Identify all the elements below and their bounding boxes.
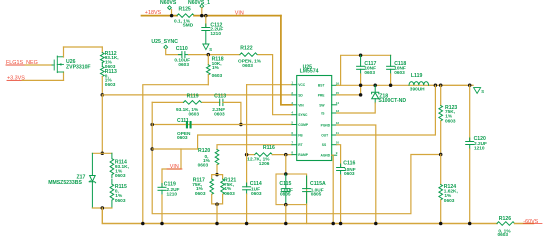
svg-text:0603: 0603 [224,191,235,197]
zener Z18 S100CT-ND [373,84,377,88]
svg-text:0603: 0603 [214,112,225,118]
svg-text:1%: 1% [115,193,123,199]
node divider top [215,173,219,177]
svg-text:1210: 1210 [210,31,221,37]
capacitor C110 [179,52,189,58]
wire BST riser [337,55,391,85]
node C116 bus [339,222,343,226]
svg-text:C110: C110 [176,46,188,52]
wire PGND drop [337,125,376,224]
capacitor C120 [469,85,471,141]
svg-text:PRE: PRE [318,93,326,97]
wire RT line [217,145,292,150]
wire C120 to bus [469,149,471,224]
wire R124 to bus [440,200,442,224]
node C114 bus [245,222,249,226]
svg-text:0603: 0603 [178,62,189,68]
wire R120 to divider [216,165,218,175]
wire VCC pin segment [247,84,292,86]
svg-text:1%: 1% [445,114,453,120]
wire R123 to mid node [440,121,442,155]
wire SS to C116 [337,145,341,167]
capacitor C115 [282,174,290,205]
resistor R120 [215,150,219,165]
node C119 bus [160,222,164,226]
svg-text:1210: 1210 [474,145,485,151]
wire RAMP rail [247,154,255,156]
svg-text:N60VS_1: N60VS_1 [188,0,210,6]
resistor R117 [210,179,214,194]
wire +18VS rail [142,15,178,17]
wire R119 to C113 [202,101,219,103]
svg-text:1: 1 [291,81,293,85]
svg-text:0603: 0603 [498,232,509,238]
svg-text:0603: 0603 [344,171,355,177]
node R124 bus [439,222,443,226]
capacitor C117 [357,55,365,74]
svg-text:SYNC: SYNC [298,113,308,117]
svg-text:C114: C114 [250,181,262,187]
node C115 bus [284,222,288,226]
capacitor C116 [337,164,345,175]
svg-text:RAMP: RAMP [298,153,309,157]
capacitor C111 [186,122,191,128]
capacitor C114 [243,183,251,194]
svg-text:L119: L119 [411,73,423,79]
wire drain of U26 to R112 [63,47,65,57]
svg-text:C115A: C115A [310,181,326,187]
svg-text:8: 8 [291,151,293,155]
svg-text:S: S [209,47,212,52]
resistor R113 [101,67,105,77]
wire R113 to node SD [101,77,103,95]
node Z17 top [101,152,105,156]
wire C114 to bus [246,194,248,224]
svg-text:C116: C116 [343,161,355,167]
node divider bus [215,222,219,226]
node C110/R118/R122 [207,53,211,57]
wire OUT line [337,85,436,135]
svg-text:1210: 1210 [167,191,178,197]
wire source of U26 [22,79,64,81]
wire R116 to RAMP pin [272,154,292,156]
svg-text:SMD: SMD [183,23,194,29]
svg-text:1%: 1% [212,65,220,71]
svg-text:0805: 0805 [311,192,322,198]
node RAMP left [245,153,249,157]
node N60VS_1 drop [200,14,204,18]
svg-text:COMP: COMP [298,123,309,127]
svg-text:AGND: AGND [320,154,330,158]
svg-text:4: 4 [291,111,293,115]
capacitor C112 [205,16,207,28]
node Z17 bottom [101,206,105,210]
wire COMP line [152,124,292,126]
resistor R116 [255,153,273,157]
node SD junction [101,93,105,97]
node feedback mid [439,153,443,157]
svg-text:R125: R125 [179,7,191,13]
wire R126 to -60VS [515,223,534,225]
svg-text:ZVP3310F: ZVP3310F [66,64,91,70]
wire R118 pulldown line [143,85,209,224]
wire C114 column [246,85,248,186]
svg-text:R126: R126 [499,216,511,222]
node OUT sense [434,84,438,88]
resistor R118 [207,55,209,65]
svg-text:PGND: PGND [321,124,331,128]
svg-text:LM5574: LM5574 [300,69,319,75]
svg-text:FB: FB [298,134,303,138]
resistor R112 [101,53,105,63]
wire divider column down to Z17 block [101,95,103,153]
wire PRE line [337,94,361,96]
wire divider bottom rail [212,194,223,204]
wire comp rail R119/C113 [152,101,183,103]
svg-text:0603: 0603 [189,112,200,118]
wire left comp vertical [152,102,441,213]
node C112 drop [204,14,208,18]
resistor R123 [440,85,442,105]
svg-text:MMSZ5233BS: MMSZ5233BS [48,180,82,186]
svg-text:0603: 0603 [242,63,253,69]
wire rail right of R125 [194,15,281,17]
svg-text:2: 2 [291,91,293,95]
node PRE join [359,93,363,97]
svg-text:0603: 0603 [115,173,126,179]
svg-text:0603: 0603 [445,119,456,125]
svg-text:0603: 0603 [195,191,206,197]
svg-text:RT: RT [298,143,302,147]
wire Z17 bottom rail [92,207,112,209]
wire C118 to SW line [390,74,392,85]
svg-text:N60VS: N60VS [160,0,177,6]
svg-text:0805: 0805 [280,192,291,198]
wire Z17 top rail [92,152,112,154]
svg-text:0603: 0603 [444,198,455,204]
svg-text:SW: SW [319,103,325,107]
svg-text:R116: R116 [263,145,275,151]
inductor L119 [429,84,473,86]
svg-text:BST: BST [318,84,325,88]
node RAMP right [284,153,288,157]
wire VIN tap to FB column [152,148,197,150]
svg-text:R122: R122 [240,45,252,51]
wire Z18 to IS pin [337,103,376,113]
wire gate of U26 [25,64,52,66]
svg-text:C111: C111 [177,118,189,124]
node divider bottom [215,203,219,207]
svg-text:6: 6 [291,131,293,135]
node C120 top [468,84,472,88]
capacitor C115A [303,176,311,203]
svg-text:SS: SS [322,143,327,147]
wire FB line [198,135,292,149]
resistor R114 [110,153,114,178]
resistor R115 [110,180,114,209]
resistor R124 [440,155,442,185]
capacitor C118 [387,55,395,74]
capacitor C113 [220,99,223,105]
wire C117 to SW line and PRE [360,74,362,95]
wire VIN jog to C119 [162,149,181,187]
svg-text:0603: 0603 [177,135,188,141]
svg-text:R119: R119 [187,93,199,99]
wire divider to bus [216,204,218,224]
node C115 box bottom [284,203,288,207]
svg-text:0603: 0603 [251,191,262,197]
svg-text:0603: 0603 [394,70,405,76]
svg-text:14: 14 [336,101,340,105]
svg-text:S100CT-ND: S100CT-ND [378,98,406,104]
node R123 top [439,84,443,88]
wire C113 to COMP corner [223,102,241,124]
wire C110 to junction [189,54,240,56]
node PGND bus [374,222,378,226]
svg-text:0603: 0603 [198,162,209,168]
node AGND bus [331,222,335,226]
resistor R126 [497,222,515,226]
node N60VS drop [170,14,174,18]
svg-text:390UH: 390UH [410,86,425,92]
svg-text:S: S [481,89,484,94]
wire C115 top stub [285,155,287,174]
wire C116 to bus [340,175,342,224]
wire C115A to bus [306,205,308,224]
svg-text:0603: 0603 [212,73,223,79]
svg-text:U25_SYNC: U25_SYNC [151,39,178,45]
resistor R121 [221,179,225,194]
svg-text:C119: C119 [164,181,176,187]
ground S under C112 [203,44,209,50]
svg-text:VIN: VIN [170,164,179,170]
node C120 bus [468,222,472,226]
svg-text:0603: 0603 [115,198,126,204]
ground S output [474,88,481,94]
svg-text:C115: C115 [279,181,291,187]
svg-text:C113: C113 [214,93,226,99]
wire divider top rail [212,175,223,179]
resistor R119 [184,101,202,105]
svg-text:VIN: VIN [298,103,304,107]
resistor R122 [240,53,257,57]
resistor R125 [177,14,194,18]
wire SW node line [341,84,473,86]
svg-text:0603: 0603 [364,70,375,76]
svg-text:VIN: VIN [235,10,244,16]
svg-text:9: 9 [336,151,338,155]
svg-text:SD: SD [298,93,303,97]
wire to ground bus [102,208,497,224]
node C111 rail left [150,123,154,127]
node VIN tap [150,147,154,151]
capacitor C119 [158,184,166,196]
wire C119 to bus [161,195,163,224]
node comp join [239,123,243,127]
svg-text:1206: 1206 [259,161,270,167]
svg-text:0603: 0603 [105,82,116,88]
node VCC drop on bus [141,222,145,226]
zener Z17 MMSZ5233BS [89,153,95,208]
svg-text:R120: R120 [198,148,210,154]
transistor U26 ZVP3310F [52,56,64,73]
svg-text:OUT: OUT [321,134,328,138]
svg-text:VCC: VCC [298,83,306,87]
wire R122 to SYNC pin [258,55,292,115]
svg-text:IS: IS [321,112,325,116]
wire SD line to pin2 [102,94,292,96]
box around C115 / C115A parallel pair [276,174,307,205]
svg-text:5: 5 [291,121,293,125]
wire VIN feed to pin3 [281,16,292,105]
wire U25_SYNC to C110 [166,49,181,55]
svg-text:7: 7 [291,141,293,145]
wire R118 to VCC line [207,75,209,85]
wire C115 box bottom stub [285,205,287,224]
node C117 top [359,54,363,58]
node C115 box top [284,172,288,176]
wire AGND drop [332,155,334,223]
